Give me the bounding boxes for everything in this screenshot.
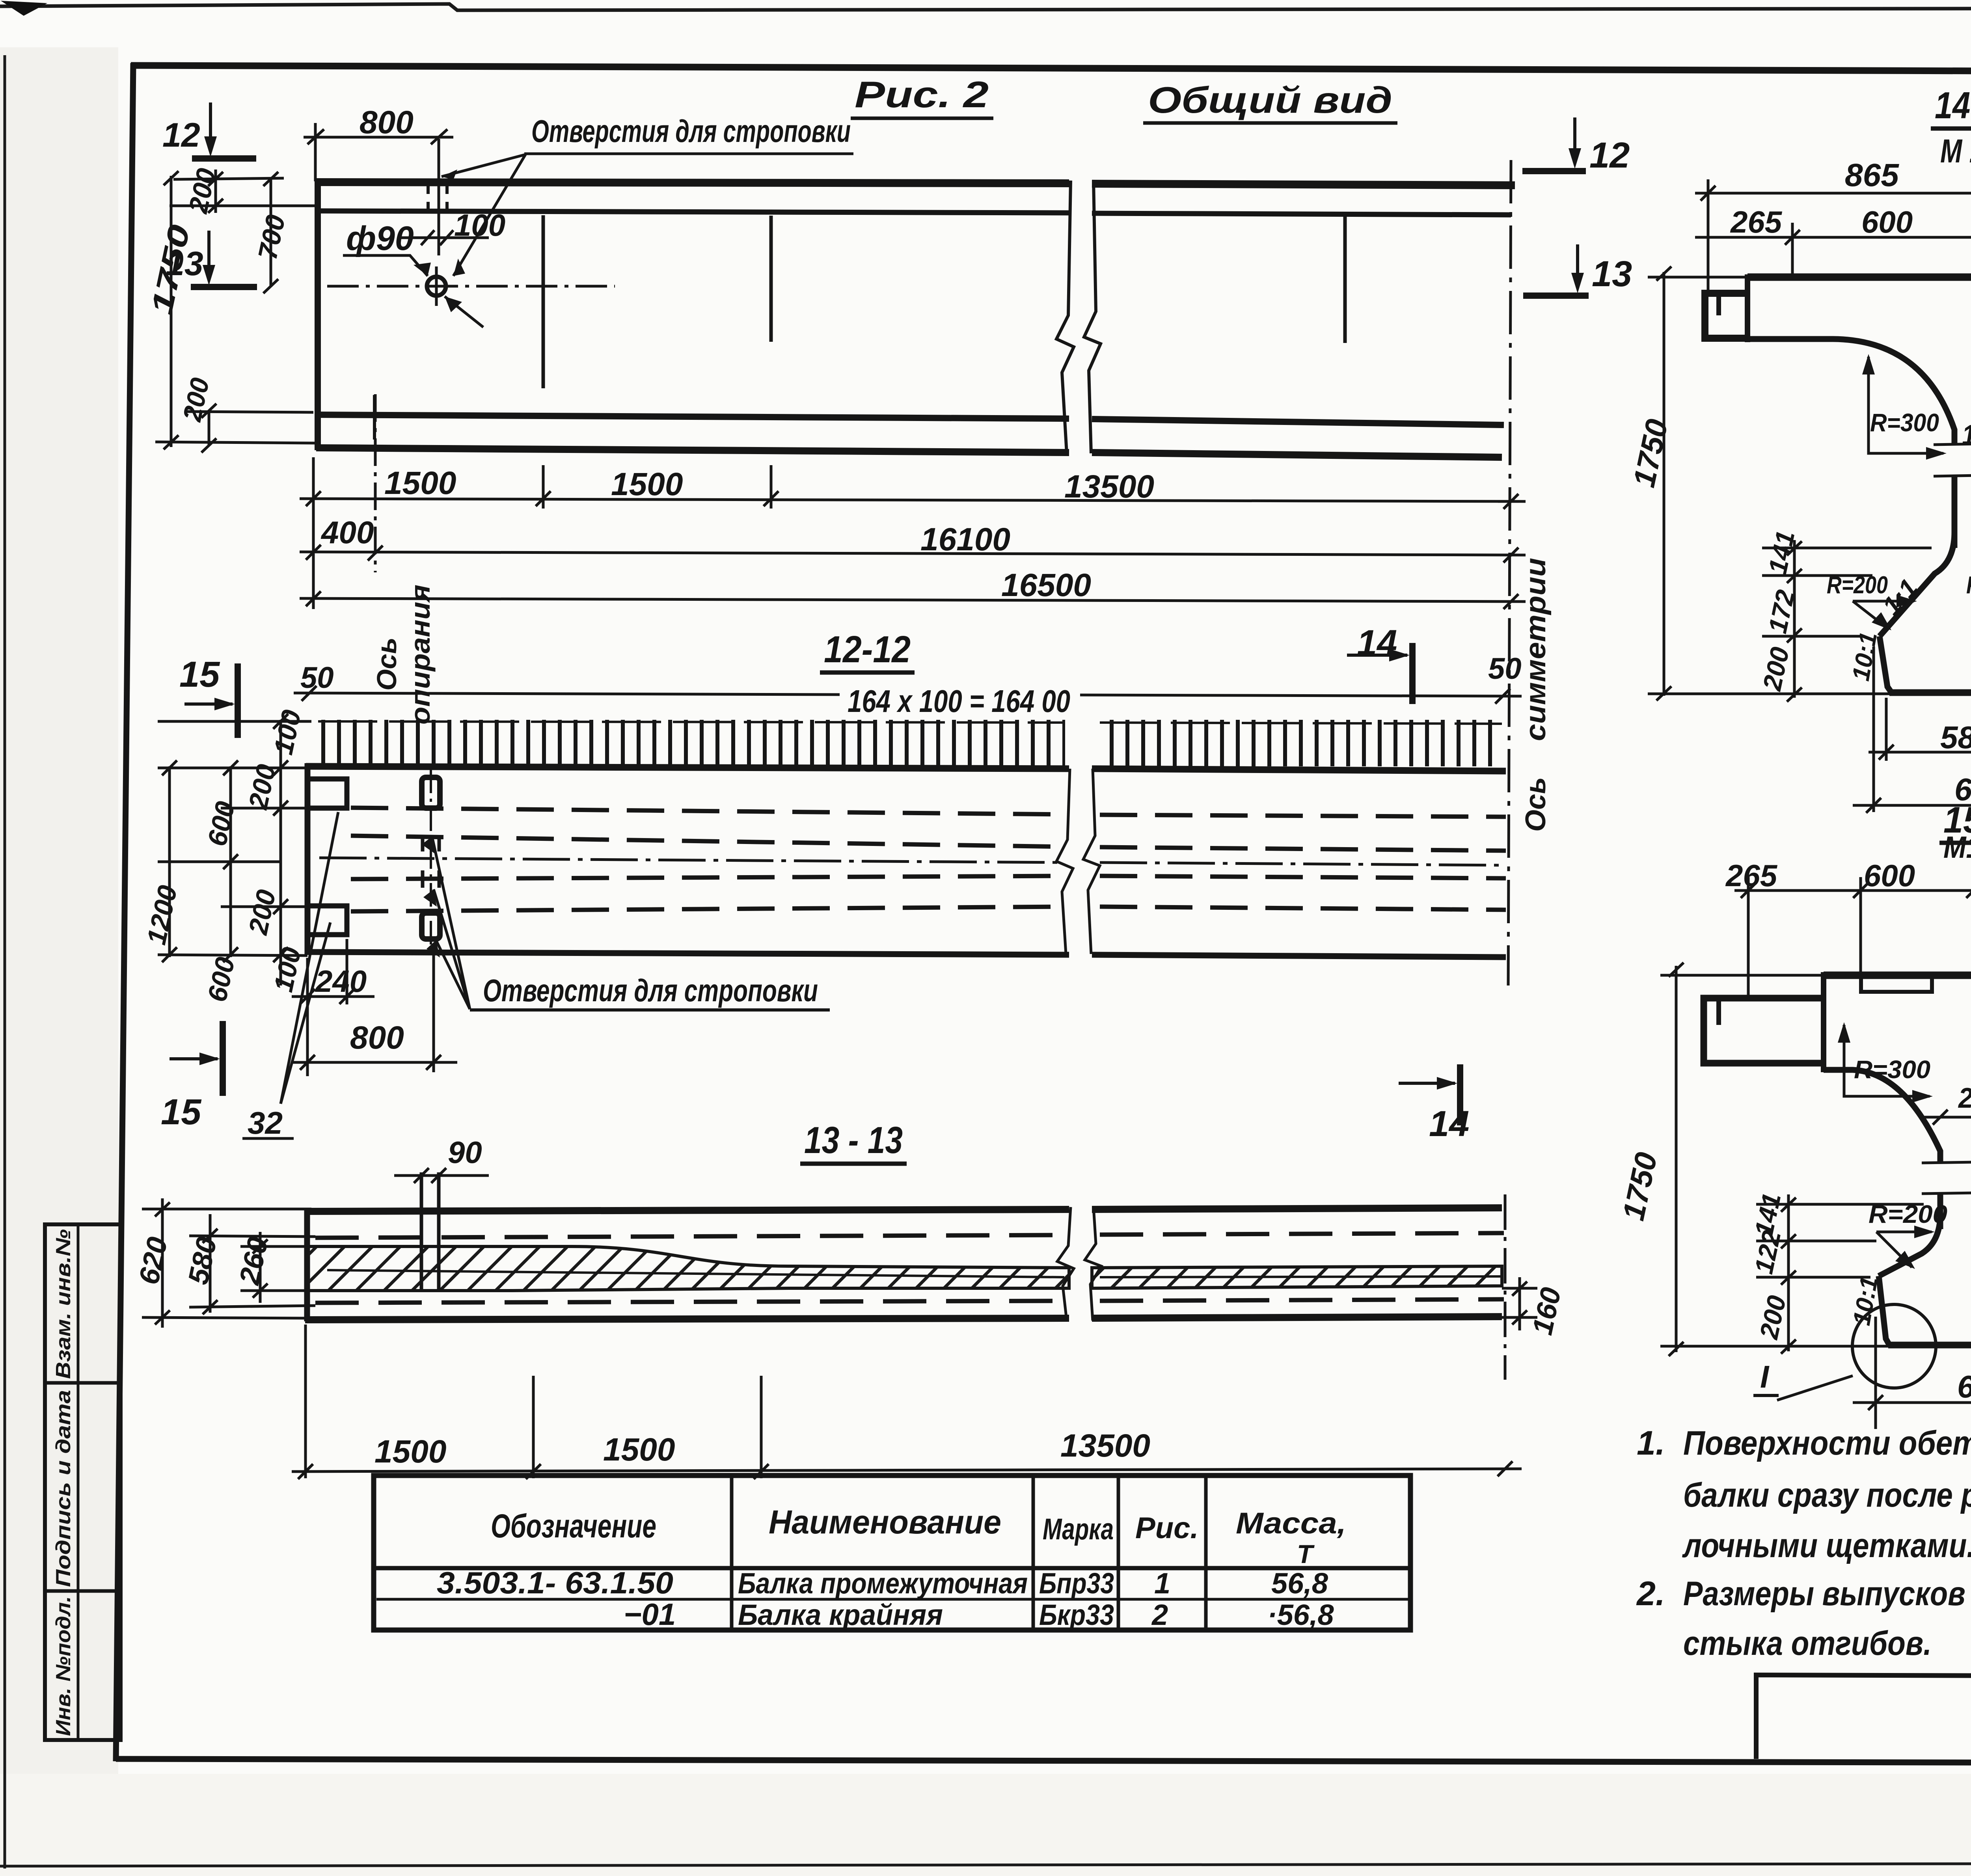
fan arrowheads: [422, 836, 440, 958]
svg-text:865: 865: [1845, 157, 1899, 193]
dim line 16500: [300, 591, 1526, 609]
15-15 web lower segment: [1940, 1194, 1971, 1229]
title 14-14: [1931, 84, 1971, 129]
svg-text:2.: 2.: [1636, 1575, 1665, 1613]
svg-text:Марка: Марка: [1043, 1513, 1114, 1546]
14-14 left dim stack lines: [1762, 540, 1932, 702]
15-15 flange left edge: [1821, 972, 1826, 1072]
beam elevation third line: [316, 415, 1504, 425]
svg-text:Ось: Ось: [371, 637, 402, 691]
plan hidden dashed line 4: [351, 907, 1506, 911]
svg-text:Обозначение: Обозначение: [491, 1507, 656, 1544]
svg-text:580: 580: [1940, 720, 1971, 755]
13-13 dim 260 line: [240, 1232, 311, 1303]
svg-text:Рис.: Рис.: [1135, 1511, 1199, 1545]
phi90 hole circle: [427, 266, 446, 306]
section mark 13 left arrow and bar: [191, 231, 257, 287]
section mark 14 bottom arrow and bar: [1399, 1064, 1460, 1125]
leader arrowheads: [442, 170, 465, 276]
break zigzag left: [1056, 181, 1074, 453]
svg-text:R=200: R=200: [1966, 572, 1971, 599]
dim 800 line with ticks: [304, 123, 453, 181]
beam elevation bottom edge: [316, 448, 1502, 457]
svg-text:·56,8: ·56,8: [1267, 1598, 1334, 1631]
14-14 dim 1750 line: [1648, 266, 1892, 700]
dim line 265/600/600 (14-14): [1695, 223, 1971, 276]
section cut line inside beam at 3412: [1343, 216, 1347, 343]
14-14 underside and fillets R300: [1747, 337, 1971, 445]
svg-text:R=300: R=300: [1870, 408, 1939, 437]
14-14 R200 flares and 1:1 slants: [1880, 532, 1971, 636]
plan left edge: [305, 763, 311, 955]
15-15 R=300 left bracket: [1844, 1025, 1930, 1096]
dim line 1500/1500/13500 under elevation: [300, 457, 1526, 609]
15-15 dim 1750 line: [1660, 963, 1888, 1356]
phi90 second leader from lower right: [445, 296, 483, 327]
14-14 R=200 left arrows: [1853, 601, 1914, 629]
drawing frame bottom border: [116, 1759, 1971, 1764]
svg-text:400: 400: [320, 515, 374, 550]
dim 200 bottom-left line: [155, 404, 315, 453]
beam elevation left end edge: [315, 179, 321, 450]
14-14 bulb bottom edge: [1889, 689, 1971, 696]
section mark 12 left arrow and bar: [192, 102, 256, 158]
svg-text:260: 260: [1958, 1082, 1971, 1114]
hole axis dash-dot horizontal: [327, 285, 615, 288]
title Ris. 2: [851, 74, 993, 118]
plan hidden dashed line 3: [351, 876, 1506, 879]
scan page top edge line: [0, 4, 1971, 10]
13-13 dim 160 right line: [1502, 1277, 1537, 1330]
13-13 dim 620 line: [142, 1198, 311, 1328]
dim 240 lines: [292, 939, 374, 1076]
svg-text:симметрии: симметрии: [1520, 558, 1552, 741]
comb dim line 164x100: [294, 686, 1522, 704]
13-13 axis dash-dot right: [1504, 1194, 1507, 1380]
dim line 16100: [300, 545, 1526, 563]
14-14 dim 620 line: [1853, 646, 1971, 813]
14-14 R=300 left bracket: [1869, 357, 1943, 453]
13-13 top edge: [305, 1208, 1502, 1211]
comb top thin line: [318, 721, 1502, 724]
svg-text:Бпр33: Бпр33: [1039, 1567, 1114, 1600]
svg-text:600: 600: [1861, 205, 1913, 239]
svg-text:лочными щетками.: лочными щетками.: [1682, 1527, 1971, 1565]
15-15 R=200 left arrows: [1876, 1232, 1932, 1267]
svg-text:620: 620: [1957, 1369, 1971, 1404]
title Obschiy vid: [1143, 79, 1397, 123]
13-13 break zigzag left: [1057, 1207, 1074, 1321]
svg-text:I: I: [1760, 1359, 1770, 1394]
svg-text:12: 12: [1589, 135, 1630, 175]
plan center dash-dot line: [319, 858, 1506, 865]
drawing frame top border: [131, 65, 1971, 73]
32 underline: [242, 1137, 294, 1140]
svg-text:R=300: R=300: [1854, 1055, 1930, 1084]
svg-text:90: 90: [448, 1135, 482, 1170]
drawing frame left border: [116, 63, 133, 1761]
14-14 bulb 10:1 sides and chamfers: [1880, 633, 1971, 692]
14-14 web lower segment: [1954, 476, 1971, 548]
section cut line inside beam at 1378: [542, 215, 545, 388]
svg-text:50: 50: [300, 661, 334, 695]
vertical extension through hole: [438, 139, 440, 255]
svg-text:Масса,: Масса,: [1236, 1507, 1346, 1540]
plan slab top edge: [306, 766, 1506, 771]
svg-text:3.503.1- 63.1.50: 3.503.1- 63.1.50: [437, 1565, 673, 1600]
14-14 top slab edge: [1747, 274, 1971, 281]
strop hole hidden lines at top: [428, 181, 447, 211]
svg-text:Взам. инв.№: Взам. инв.№: [52, 1229, 75, 1379]
section mark 15 top arrow and bar: [184, 663, 238, 738]
svg-text:Бкр33: Бкр33: [1039, 1598, 1114, 1631]
15-15 underside and fillets R300: [1824, 1068, 1971, 1163]
svg-text:16100: 16100: [920, 522, 1010, 557]
svg-text:опирания: опирания: [405, 585, 436, 725]
dim line 265/600/600 (15-15): [1734, 877, 1971, 997]
13-13 hole side lines: [421, 1172, 439, 1291]
13-13 dim 580 line: [189, 1214, 315, 1314]
svg-text:15: 15: [179, 654, 220, 695]
section mark 14 top arrow and bar: [1347, 643, 1412, 704]
svg-text:56,8: 56,8: [1271, 1567, 1328, 1600]
title 15-15: [1939, 799, 1971, 843]
14-14 anchor hook: [1705, 293, 1749, 338]
15-15 bulb 10:1 sides: [1879, 1276, 1971, 1345]
svg-text:Отверстия для строповки: Отверстия для строповки: [483, 973, 818, 1008]
svg-text:164 х 100 = 164 00: 164 х 100 = 164 00: [848, 684, 1070, 719]
section mark 15 bottom arrow and bar: [170, 1021, 223, 1096]
svg-text:1: 1: [1154, 1567, 1170, 1600]
svg-text:Т: Т: [1297, 1539, 1315, 1569]
dim 800 line (plan): [292, 946, 457, 1072]
13-13 hatched band right part: [1092, 1266, 1502, 1288]
label Otverstiya dlya stropovki (top): [524, 114, 853, 154]
svg-text:М 1: 20: М 1: 20: [1940, 132, 1971, 170]
leader lines from label to holes: [442, 155, 525, 276]
axis of symmetry dash-dot vertical: [1508, 160, 1511, 986]
comb hatch band: [318, 720, 1065, 766]
13-13 break zigzag right: [1085, 1207, 1101, 1321]
svg-text:50: 50: [1488, 652, 1522, 686]
strop hole plan upper: [422, 777, 440, 808]
svg-text:Наименование: Наименование: [769, 1503, 1001, 1541]
15-15 bulb bottom edge: [1888, 1342, 1971, 1349]
svg-text:13: 13: [1592, 254, 1632, 294]
13-13 bottom edge: [305, 1317, 1502, 1320]
13-13 band center line: [327, 1270, 1503, 1277]
15-15 left dim stack lines: [1756, 1194, 1924, 1354]
svg-text:13 - 13: 13 - 13: [804, 1119, 903, 1161]
14-14 flange left edge: [1745, 274, 1750, 342]
svg-text:800: 800: [350, 1020, 404, 1056]
plan label leader fan: [432, 836, 470, 1009]
svg-text:Общий вид: Общий вид: [1148, 79, 1392, 121]
detail leader to label I: [1777, 1376, 1853, 1400]
15-15 top notch left: [1861, 979, 1932, 992]
svg-text:12-12: 12-12: [824, 628, 911, 671]
svg-text:160: 160: [1962, 419, 1971, 451]
svg-text:Инв. №подл.: Инв. №подл.: [52, 1596, 75, 1736]
section mark 13 right arrow and bar: [1523, 244, 1589, 296]
strop hole hidden middle marks: [423, 835, 439, 888]
svg-text:2: 2: [1151, 1598, 1168, 1631]
plan bottom edge: [305, 952, 1506, 957]
15-15 dim 620 line: [1853, 1289, 1971, 1429]
svg-text:240: 240: [315, 964, 367, 999]
13-13 lower hidden dashed line: [315, 1299, 1504, 1303]
svg-text:32: 32: [248, 1105, 283, 1140]
left stamp column box: [45, 1224, 121, 1740]
scan corner artifact top-left: [1, 1, 47, 16]
svg-text:Подпись и дата: Подпись и дата: [52, 1390, 75, 1587]
title block box: [1756, 1675, 1971, 1762]
plan break zigzag right: [1083, 769, 1100, 954]
dim 90 line: [394, 1168, 489, 1183]
table header Massa T: [1236, 1507, 1346, 1569]
svg-text:13500: 13500: [1060, 1428, 1150, 1464]
plan hidden dashed line 1: [351, 808, 1506, 817]
svg-text:балки сразу после распалубк: балки сразу после распалубки обрабатываю…: [1683, 1476, 1971, 1514]
13-13 hatched band left part: [307, 1246, 1069, 1291]
svg-text:−01: −01: [624, 1597, 676, 1632]
svg-text:Поверхности обетонируемых бо: Поверхности обетонируемых боковых граней…: [1683, 1424, 1971, 1462]
svg-text:М1: 20: М1: 20: [1943, 830, 1971, 864]
dim 700 line: [263, 172, 278, 293]
svg-text:1500: 1500: [374, 1434, 446, 1470]
15-15 260 dim ticks: [1924, 1110, 1971, 1125]
label Otverstiya dlya stropovki (plan): [470, 973, 830, 1010]
dim 865 line: [1695, 179, 1971, 292]
section cut line inside beam at 1956: [769, 216, 773, 342]
15-15 web break mark: [1922, 1161, 1971, 1194]
dim 200 top-left line: [170, 170, 315, 213]
title 13-13: [800, 1119, 907, 1164]
15-15 top slab edge: [1824, 972, 1971, 979]
plan left dim lines: [158, 714, 347, 986]
notch rect lower: [307, 906, 347, 935]
plan hidden dashed line 2: [351, 836, 1506, 851]
svg-text:600: 600: [1864, 858, 1915, 893]
svg-text:13500: 13500: [1064, 469, 1154, 505]
detail label I underlined: [1753, 1359, 1779, 1395]
32 leader lines: [281, 812, 338, 1104]
scan page left edge line: [4, 55, 6, 1869]
svg-text:стыка отгибов.: стыка отгибов.: [1683, 1625, 1932, 1662]
dim 1750 left line: [164, 171, 179, 449]
notch rect upper: [307, 779, 347, 808]
svg-text:12: 12: [162, 116, 200, 154]
svg-text:1500: 1500: [603, 1432, 675, 1468]
phi90 leader: [343, 255, 428, 276]
break zigzag right: [1084, 181, 1101, 453]
14-14 web break mark upper: [1934, 443, 1971, 476]
svg-text:Рис. 2: Рис. 2: [855, 74, 989, 115]
svg-text:Размеры выпусков арматуры п: Размеры выпусков арматуры плиты указаны …: [1683, 1575, 1971, 1613]
dim 100 line: [398, 230, 489, 245]
specification table box: [374, 1475, 1410, 1630]
svg-text:Балка промежуточная: Балка промежуточная: [738, 1567, 1028, 1600]
strop hole plan lower: [422, 913, 440, 939]
title 12-12: [820, 628, 915, 673]
beam elevation top edge: [316, 182, 1515, 185]
15-15 anchor hook: [1704, 998, 1825, 1063]
15-15 R200 flares and 1:1 slants: [1879, 1214, 1971, 1280]
svg-text:1.: 1.: [1637, 1424, 1665, 1462]
section mark 12 right arrow and bar: [1522, 117, 1586, 171]
svg-text:1500: 1500: [611, 466, 683, 502]
hole center dash-dot vertical: [430, 769, 432, 946]
svg-text:1500: 1500: [384, 465, 456, 501]
13-13 left edge: [304, 1208, 310, 1321]
scan page bottom edge line: [0, 1863, 1971, 1866]
svg-text:800: 800: [360, 104, 414, 140]
detail circle I on 15-15: [1852, 1304, 1936, 1388]
svg-text:16500: 16500: [1001, 567, 1091, 603]
svg-text:Ось: Ось: [1520, 777, 1552, 832]
svg-text:265: 265: [1730, 205, 1783, 239]
13-13 dim line 1500/1500/13500: [292, 1325, 1522, 1479]
13-13 top hidden dashed line: [315, 1233, 1504, 1238]
bearing axis tick through beam: [373, 395, 376, 440]
svg-text:Отверстия для строповки: Отверстия для строповки: [531, 114, 851, 149]
14-14 dim 580 line: [1869, 698, 1971, 761]
svg-text:14- 14: 14- 14: [1935, 84, 1971, 127]
svg-text:15: 15: [161, 1092, 202, 1132]
bearing axis dash-dot vertical: [374, 394, 377, 572]
svg-text:Балка крайняя: Балка крайняя: [738, 1598, 943, 1631]
beam elevation second line: [316, 211, 1511, 215]
plan break zigzag left: [1056, 769, 1073, 954]
